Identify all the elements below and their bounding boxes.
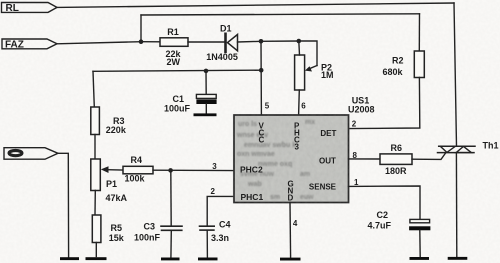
- wire tag to ground: [58, 153, 69, 256]
- svg-text:100k: 100k: [125, 173, 146, 183]
- svg-text:100nF: 100nF: [134, 233, 161, 243]
- wire P2 bottom to pin6: [298, 90, 301, 115]
- svg-text:PHC2: PHC2: [240, 165, 263, 175]
- ground tag: [60, 257, 79, 260]
- wire FAZ junction to R1: [141, 41, 160, 43]
- svg-text:47kA: 47kA: [106, 193, 128, 203]
- wire triac to ground: [455, 153, 457, 257]
- svg-text:sm: sm: [270, 194, 280, 201]
- wire node to P2 top node: [261, 40, 299, 42]
- svg-text:PHC1: PHC1: [241, 192, 264, 202]
- tag oval connector: [4, 148, 58, 160]
- svg-text:Th1: Th1: [483, 141, 499, 151]
- svg-text:R6: R6: [391, 143, 403, 153]
- triac Th1: [438, 141, 499, 153]
- ground C3: [161, 258, 180, 261]
- svg-text:nwme oxq: nwme oxq: [258, 161, 292, 168]
- wire R2 bottom to DET: [349, 78, 420, 129]
- svg-text:DET: DET: [320, 129, 336, 138]
- wire PHC1 pin2: [207, 196, 234, 226]
- svg-text:R4: R4: [131, 155, 143, 165]
- svg-text:R2: R2: [392, 56, 404, 66]
- svg-text:oxn wmvae: oxn wmvae: [237, 151, 275, 158]
- svg-text:D: D: [288, 194, 294, 203]
- svg-text:RL: RL: [6, 3, 19, 14]
- svg-text:euw: euw: [300, 194, 314, 201]
- svg-text:1M: 1M: [321, 70, 334, 80]
- wire SENSE to C2: [349, 186, 421, 219]
- svg-text:C4: C4: [219, 220, 231, 230]
- wire RL top: [57, 3, 454, 7]
- wire R6 to gate: [412, 153, 446, 160]
- wire FAZ: [57, 42, 141, 44]
- svg-text:4: 4: [293, 219, 298, 228]
- tag FAZ: [2, 39, 57, 51]
- wire R3 to P1: [94, 135, 96, 160]
- ground C2: [410, 257, 430, 260]
- svg-text:mx: mx: [305, 119, 315, 126]
- tag RL: [2, 3, 58, 15]
- wire GND pin4: [289, 203, 292, 259]
- resistor R5: [92, 215, 124, 243]
- capacitor C2: [368, 210, 431, 257]
- potentiometer P2: [295, 55, 334, 90]
- capacitor C3: [134, 170, 182, 258]
- wire R1 to D1: [188, 41, 225, 43]
- wire rail down to R3: [93, 71, 94, 107]
- resistor R2: [383, 51, 425, 78]
- svg-text:D1: D1: [220, 24, 232, 34]
- wire R2 top lead: [418, 14, 420, 51]
- node P2 top: [297, 39, 302, 44]
- node C1 lead: [204, 69, 209, 74]
- svg-text:uro ls: uro ls: [238, 121, 257, 128]
- wire R4 to pin3: [153, 169, 234, 171]
- svg-text:220k: 220k: [106, 125, 127, 135]
- svg-text:15k: 15k: [109, 233, 125, 243]
- resistor R3: [91, 107, 127, 135]
- svg-text:6: 6: [301, 102, 306, 111]
- svg-text:emnuav swbu k: emnuav swbu k: [244, 142, 296, 149]
- svg-text:C3: C3: [144, 222, 156, 232]
- ground pin4: [280, 258, 301, 261]
- wire C1 rail: [93, 70, 261, 71]
- wire P1 to R5: [94, 191, 96, 216]
- svg-text:680k: 680k: [383, 67, 404, 77]
- wire to wiper corner: [299, 41, 317, 66]
- svg-text:5: 5: [265, 102, 270, 111]
- wire R5 to ground: [95, 243, 97, 257]
- wire OUT to R6: [349, 158, 381, 160]
- svg-text:2: 2: [211, 187, 216, 196]
- svg-text:C1: C1: [173, 94, 185, 104]
- svg-text:3: 3: [212, 162, 217, 171]
- IC U1 U2008: [234, 115, 349, 203]
- svg-text:100uF: 100uF: [164, 104, 191, 114]
- svg-text:2W: 2W: [167, 57, 181, 67]
- ground R5: [86, 257, 107, 260]
- svg-text:wab: wab: [247, 181, 262, 188]
- svg-text:1N4005: 1N4005: [206, 52, 238, 62]
- wire P2 wiper arrow: [305, 66, 317, 72]
- diode D1: [206, 24, 238, 63]
- wire pin5 vertical: [260, 41, 262, 115]
- ground triac: [448, 257, 468, 260]
- wire P2 top lead: [298, 41, 301, 55]
- svg-text:C: C: [259, 136, 265, 145]
- svg-text:P1: P1: [106, 179, 117, 189]
- svg-text:FAZ: FAZ: [5, 40, 24, 51]
- resistor R6: [380, 143, 412, 176]
- svg-text:180R: 180R: [385, 166, 407, 176]
- svg-text:3.3n: 3.3n: [211, 233, 229, 243]
- wire upper rail to R2: [141, 14, 420, 15]
- capacitor C1: [164, 71, 217, 114]
- node FAZ junction: [139, 39, 144, 44]
- svg-text:4.7uF: 4.7uF: [368, 220, 392, 230]
- node C3 junction: [168, 168, 173, 173]
- svg-text:am: am: [300, 171, 310, 178]
- ground C4: [198, 258, 218, 261]
- wire P1 wiper arrow: [101, 166, 123, 173]
- resistor R1: [160, 27, 188, 67]
- svg-text:3: 3: [295, 143, 300, 152]
- svg-text:C2: C2: [377, 210, 389, 220]
- resistor R4: [123, 155, 153, 183]
- node VCC top: [259, 39, 264, 44]
- svg-text:OUT: OUT: [319, 157, 336, 166]
- svg-text:SENSE: SENSE: [309, 183, 337, 192]
- node C1 rail pin5: [259, 68, 264, 73]
- capacitor C4: [200, 220, 231, 259]
- svg-text:2: 2: [352, 120, 357, 129]
- svg-text:R5: R5: [111, 223, 123, 233]
- wire up from FAZ junction: [140, 15, 142, 42]
- potentiometer P1: [91, 159, 128, 203]
- svg-text:U2008: U2008: [348, 105, 375, 115]
- wire right rail: [454, 3, 457, 146]
- ground C1: [194, 113, 217, 116]
- svg-text:R1: R1: [167, 27, 179, 37]
- wire D1 to node: [238, 40, 262, 43]
